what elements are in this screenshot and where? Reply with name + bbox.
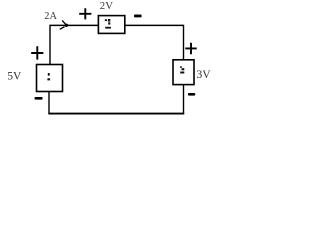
svg-text:3V: 3V <box>197 69 212 81</box>
wire bottom horizontal <box>48 113 184 115</box>
plus sign above element 3 <box>185 43 196 55</box>
wire top horizontal <box>50 24 184 26</box>
wire right vertical lower <box>183 84 185 114</box>
plus sign top (left of element 2) <box>79 8 91 19</box>
element 2 box (top) <box>98 16 124 34</box>
element 2 numeral <box>105 19 107 21</box>
element 3 numeral <box>180 66 182 68</box>
minus sign right of element 2 <box>134 15 142 18</box>
element 3 box (right) <box>173 60 194 85</box>
svg-text:5V: 5V <box>7 71 22 83</box>
current arrow 2A <box>62 20 66 25</box>
plus sign above element 1 <box>31 46 43 59</box>
element 1 box (5V source) <box>37 65 63 92</box>
svg-text:2V: 2V <box>100 0 113 12</box>
minus sign below element 1 <box>35 97 43 100</box>
wire left vertical upper <box>49 25 51 65</box>
junction dot on top wire <box>65 24 68 27</box>
wire left vertical lower <box>48 91 50 113</box>
wire right vertical upper <box>183 25 185 60</box>
minus sign below element 3 <box>188 93 195 96</box>
svg-text:2A: 2A <box>44 11 57 22</box>
element 1 numeral <box>48 73 50 76</box>
